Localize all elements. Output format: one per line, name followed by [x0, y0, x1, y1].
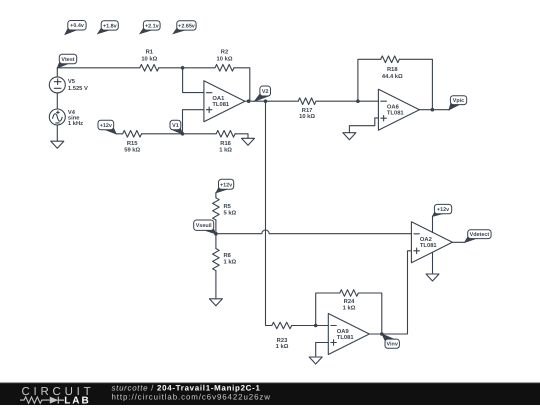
node flag +12v R15 — [98, 120, 117, 135]
svg-text:R5: R5 — [224, 204, 232, 210]
wire: R2 right then down to OA1 output — [234, 68, 250, 101]
node flag Vdetect — [464, 230, 492, 244]
wire: OA1 output to R17 — [244, 100, 298, 102]
svg-text:R24: R24 — [344, 298, 355, 305]
svg-text:R17: R17 — [302, 108, 313, 114]
ground right of R16 — [242, 138, 255, 145]
resistor R15 — [123, 131, 142, 154]
svg-text:10 kΩ: 10 kΩ — [141, 55, 157, 62]
svg-text:V2: V2 — [262, 89, 269, 95]
voltage source V5 — [49, 77, 88, 93]
wire: +12v down through R5 top lead — [215, 193, 217, 198]
svg-text:1 kΩ: 1 kΩ — [343, 305, 356, 312]
node flag +2.65v — [172, 21, 196, 35]
junction node 9 — [380, 332, 384, 336]
ground under V4 — [51, 141, 64, 148]
svg-text:Vdetect: Vdetect — [470, 232, 490, 238]
op-amp OA2 — [411, 222, 452, 263]
svg-text:R1: R1 — [146, 50, 154, 56]
svg-text:+2.65v: +2.65v — [178, 23, 195, 29]
svg-text:+0.4v: +0.4v — [70, 23, 84, 29]
wire: OA2 +12v supply — [432, 216, 434, 233]
junction node 1 — [181, 66, 185, 70]
wire: OA9 feedback loop — [316, 293, 340, 326]
node flag +12v R5 — [215, 179, 234, 193]
node flag V1 — [170, 120, 183, 134]
ground OA6 plus — [343, 133, 356, 140]
op-amp OA1 — [204, 81, 245, 122]
wire: R23 right to OA9 minus — [292, 325, 329, 327]
ground under R6 — [209, 299, 222, 306]
node flag Vinv — [381, 333, 399, 348]
resistor R6 — [213, 249, 237, 271]
svg-text:Vinv: Vinv — [387, 342, 398, 348]
resistor R5 — [213, 198, 237, 220]
wire: OA2 ground supply — [432, 252, 434, 274]
svg-text:R23: R23 — [277, 337, 288, 344]
svg-text:V1: V1 — [172, 123, 179, 129]
wire: R15 to V1 node — [142, 133, 217, 135]
ground OA9 plus — [309, 357, 322, 364]
svg-text:Vpic: Vpic — [453, 98, 464, 104]
svg-text:OA1: OA1 — [212, 95, 225, 102]
resistor R23 — [272, 322, 292, 350]
wire: V5 top to Vtest corner and top rail to R1 — [57, 68, 140, 77]
svg-text:44.4 kΩ: 44.4 kΩ — [382, 73, 403, 80]
op-amp OA9 — [328, 314, 369, 355]
svg-text:TL081: TL081 — [387, 110, 405, 117]
wire: R16 right to ground stub — [235, 134, 248, 139]
node flag Vpic — [448, 96, 466, 111]
svg-text:+12v: +12v — [100, 123, 112, 129]
node flag +12v OA2 — [432, 204, 452, 217]
svg-text:OA9: OA9 — [337, 328, 350, 335]
svg-text:10 kΩ: 10 kΩ — [217, 55, 233, 62]
svg-text:R15: R15 — [127, 141, 138, 147]
footer bar — [0, 383, 540, 405]
svg-text:1 kHz: 1 kHz — [68, 120, 83, 127]
node flag +0.4v — [64, 21, 86, 36]
resistor R2 — [215, 65, 234, 72]
wire: V4 bottom to ground — [56, 125, 58, 141]
svg-text:http://circuitlab.com/c6v96422: http://circuitlab.com/c6v96422u26zw — [112, 392, 271, 401]
svg-text:1 kΩ: 1 kΩ — [219, 147, 232, 154]
svg-text:1 kΩ: 1 kΩ — [276, 343, 289, 350]
wire: V2 column down to R23 row — [266, 101, 272, 325]
wire: R6 bottom to ground — [215, 271, 217, 299]
svg-text:sturcotte / 204-Travail1-Manip: sturcotte / 204-Travail1-Manip2C-1 — [112, 383, 261, 392]
svg-text:V5: V5 — [68, 79, 76, 85]
junction node 2 — [247, 99, 251, 103]
resistor R17 — [298, 98, 316, 120]
wire: OA6 feedback loop (up, right over R18, down to output) — [358, 59, 381, 101]
op-amp OA6 — [378, 89, 419, 130]
svg-text:+1.8v: +1.8v — [103, 23, 117, 29]
wire: OA6 output to Vpic — [419, 109, 449, 111]
wire: V5/V4 link — [56, 93, 58, 109]
resistor R24 — [340, 290, 359, 312]
svg-text:R18: R18 — [387, 66, 398, 73]
junction node 5 — [356, 99, 360, 103]
svg-text:+12v: +12v — [437, 207, 449, 213]
resistor R18 — [381, 56, 403, 80]
junction node 4 — [181, 132, 185, 136]
svg-text:LAB: LAB — [64, 396, 91, 406]
voltage source V4 (sine) — [49, 109, 83, 127]
svg-text:59 kΩ: 59 kΩ — [124, 147, 140, 154]
junction node 8 — [314, 324, 318, 328]
junction node 3 — [264, 99, 268, 103]
wire: OA6 plus staircase to ground — [349, 118, 378, 133]
wire: junction down to OA1 minus input — [183, 68, 204, 93]
svg-text:1 kΩ: 1 kΩ — [224, 259, 237, 266]
wire: +12v to R15 — [116, 133, 122, 135]
svg-text:Vseuil: Vseuil — [196, 223, 212, 229]
svg-text:TL081: TL081 — [212, 101, 230, 108]
resistor R16 — [216, 131, 235, 154]
svg-text:5 kΩ: 5 kΩ — [224, 210, 237, 217]
svg-text:R2: R2 — [221, 49, 228, 56]
svg-text:1.525 V: 1.525 V — [68, 85, 88, 92]
svg-text:OA2: OA2 — [420, 236, 432, 243]
ground OA2 supply — [426, 274, 439, 281]
svg-text:Vtest: Vtest — [61, 57, 74, 63]
svg-text:R6: R6 — [224, 252, 232, 259]
svg-text:OA6: OA6 — [387, 104, 400, 111]
resistor R1 — [140, 65, 159, 72]
junction node 6 — [431, 108, 435, 112]
node flag Vtest — [57, 54, 77, 68]
CircuitLab logo — [20, 386, 94, 407]
svg-text:TL081: TL081 — [420, 242, 438, 249]
wire: R1 right to R1/R2 junction — [159, 67, 215, 69]
wire: Vseuil junction down through R6 top lead — [215, 234, 217, 249]
svg-text:10 kΩ: 10 kΩ — [299, 113, 315, 120]
node flag Vseuil — [194, 220, 217, 235]
svg-text:+2.1v: +2.1v — [145, 23, 159, 29]
wire: OA2 output to Vdetect — [452, 241, 464, 243]
wire: OA9 plus left and down to ground — [316, 343, 329, 358]
svg-text:+12v: +12v — [220, 182, 232, 188]
wire: R5 bottom to Vseuil junction — [215, 220, 217, 234]
wire: R17 right to OA6 minus — [316, 100, 378, 102]
wire: OA2 plus left and down to OA9 output row — [369, 251, 411, 334]
wire: OA1 plus input left and down to V1 node — [183, 110, 204, 134]
node flag V2 — [253, 86, 270, 102]
svg-text:TL081: TL081 — [337, 334, 355, 341]
svg-text:R16: R16 — [220, 140, 231, 147]
node flag +1.8v — [97, 21, 119, 35]
wire: Vseuil row to OA2 minus (with hop over V2 column) — [216, 230, 412, 234]
node flag +2.1v — [139, 21, 160, 35]
junction node 7 — [214, 232, 218, 236]
